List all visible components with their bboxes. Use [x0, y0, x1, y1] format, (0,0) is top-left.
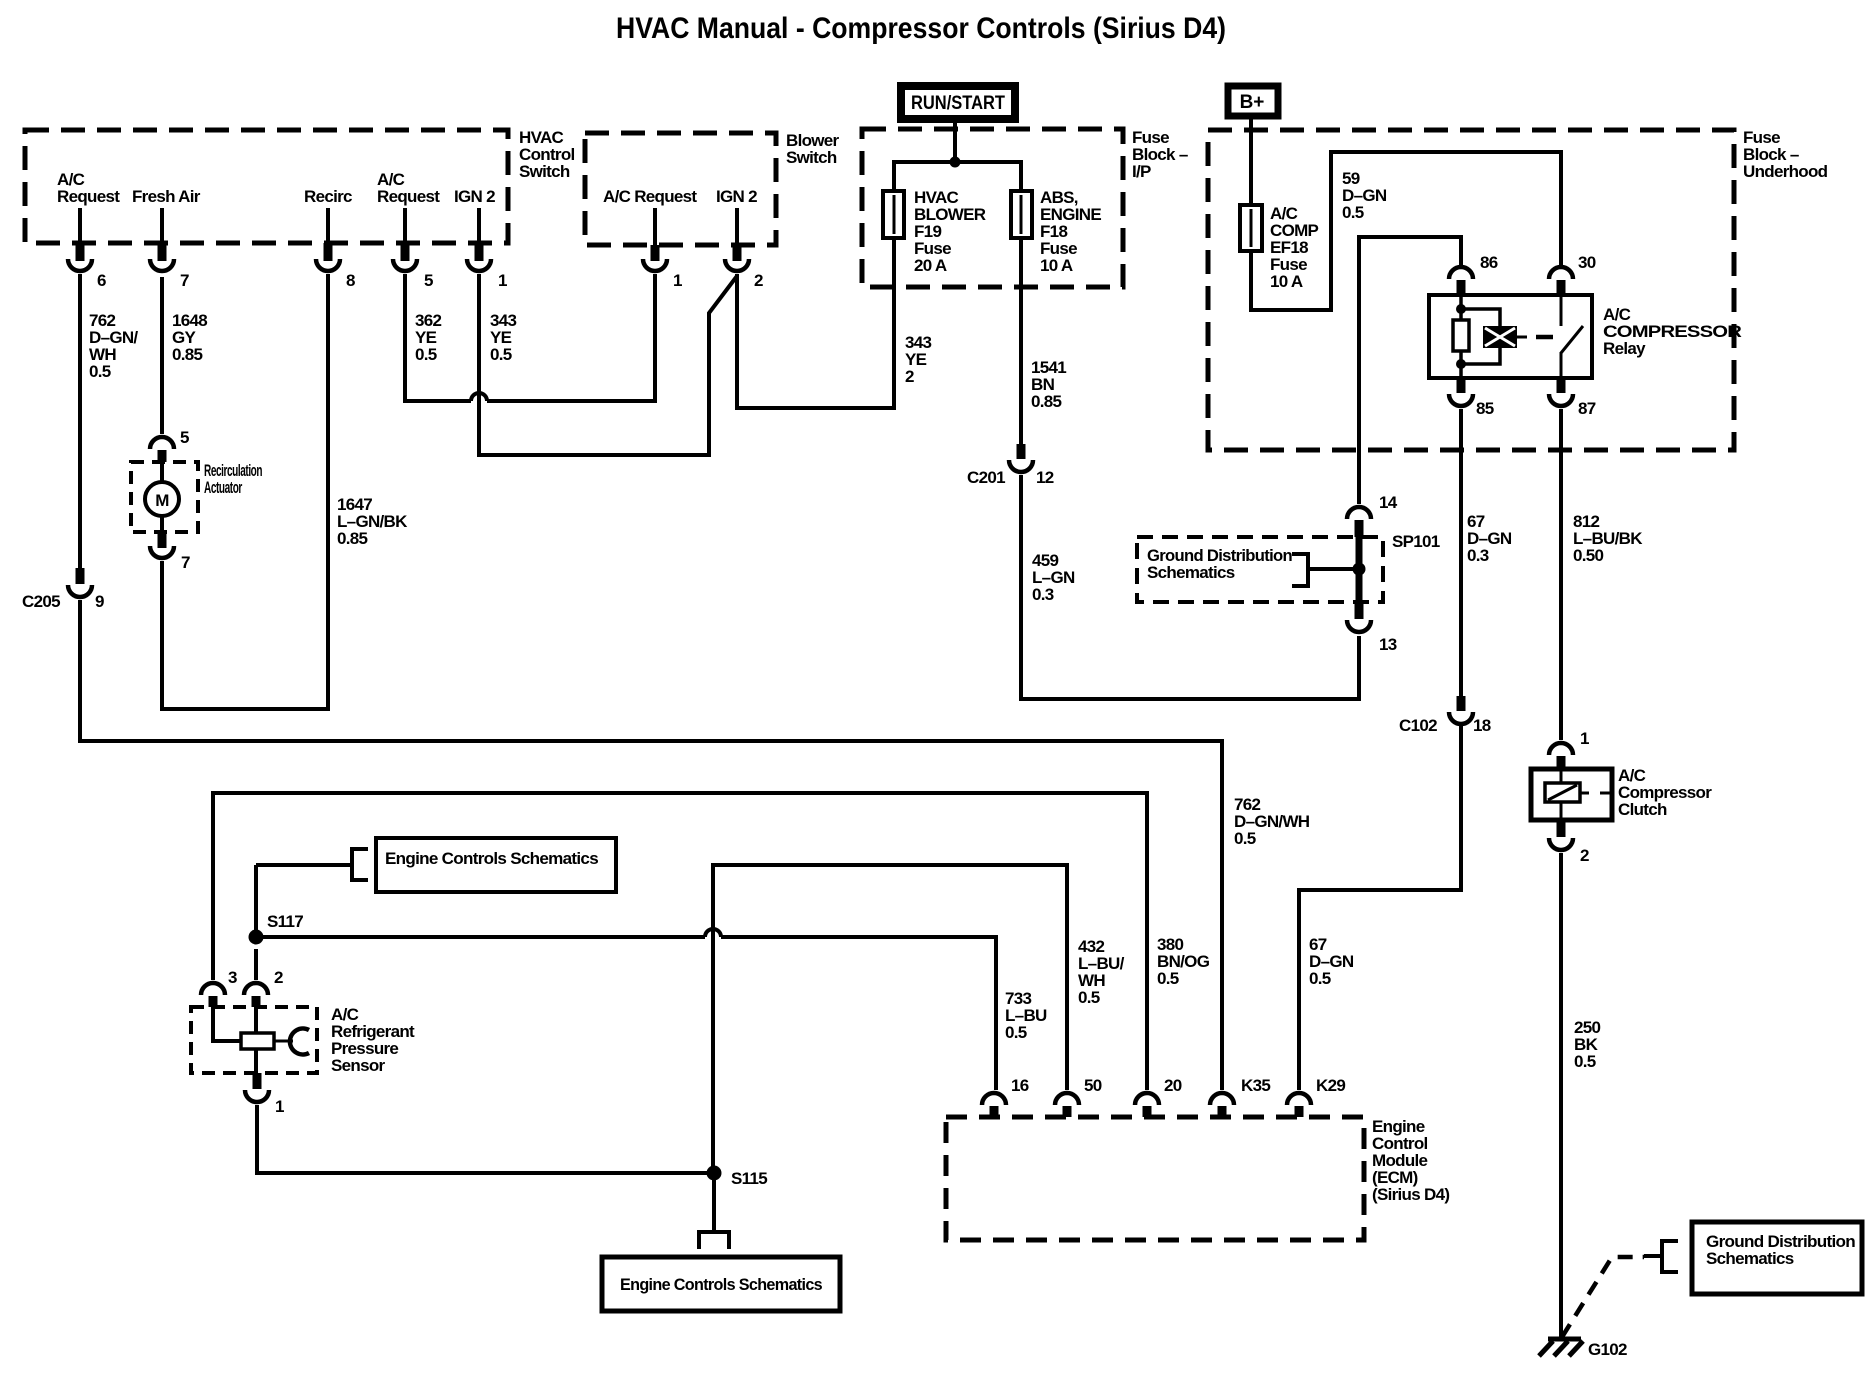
B+ feed box [1228, 86, 1278, 116]
svg-text:8: 8 [346, 271, 355, 290]
relay pin 86 connector [1449, 267, 1473, 279]
A/C COMPRESSOR Relay box U1 [1429, 295, 1592, 378]
half connector bracket (lower) [699, 1232, 729, 1249]
pin 5 connector [403, 208, 407, 247]
Engine Controls Schematics box (lower) [602, 1257, 840, 1311]
Ground Distribution Schematics SP101 box [1137, 537, 1383, 602]
svg-text:2: 2 [274, 968, 283, 987]
relay pin 87 connector [1557, 378, 1566, 393]
svg-text:M: M [155, 491, 169, 510]
wire 380 BN/OG: ECM pin 20 up, left, down to sensor pin 3 [213, 793, 1147, 1090]
svg-text:7: 7 [181, 553, 190, 572]
svg-text:20: 20 [1164, 1076, 1182, 1095]
svg-text:S115: S115 [731, 1169, 767, 1188]
svg-text:B+: B+ [1240, 92, 1265, 113]
ECM pin 20 connector [1135, 1093, 1159, 1105]
svg-text:5: 5 [424, 271, 433, 290]
svg-text:Recirc: Recirc [304, 187, 352, 206]
relay coil feed wire [1461, 295, 1500, 378]
svg-text:18: 18 [1473, 716, 1491, 735]
relay pin 30 connector [1549, 267, 1573, 279]
relay resistor [1453, 320, 1469, 351]
wire fresh air: pin 7 down to actuator pin 5 [160, 277, 164, 434]
svg-text:Engine Controls Schematics: Engine Controls Schematics [385, 849, 598, 868]
svg-text:9: 9 [95, 592, 104, 611]
svg-text:K29: K29 [1316, 1076, 1345, 1095]
sensor transducer lead [274, 1040, 293, 1043]
wire sensor pin1 to S115 [257, 1105, 714, 1173]
wire 67 D-GN 0.5: C102 down, left, down to ECM K29 [1299, 726, 1461, 1090]
wire B+ stem to fuse EF18 [1249, 119, 1253, 205]
svg-text:IGN 2: IGN 2 [716, 187, 757, 206]
relay coil [1483, 326, 1517, 348]
half connector bracket to splice [1292, 554, 1353, 586]
clutch pin 2 connector [1557, 820, 1566, 837]
wire hop at x=479 [471, 393, 487, 401]
splice SP101 line [1356, 537, 1363, 602]
half connector bracket [1644, 1241, 1678, 1272]
Engine Controls Schematics box (upper) [376, 838, 616, 892]
Engine Control Module ECM box [946, 1117, 1364, 1240]
svg-text:HVAC Manual - Compressor Contr: HVAC Manual - Compressor Controls (Siriu… [616, 12, 1226, 45]
actuator pin 5 connector [150, 437, 174, 449]
svg-text:BlowerSwitch: BlowerSwitch [786, 131, 840, 167]
wire 343 YE 2: blower pin 2 down and right to fuse F19 [737, 238, 894, 408]
sensor pin 2 connector [254, 949, 258, 980]
connector C205 [76, 568, 85, 584]
svg-text:85: 85 [1476, 399, 1494, 418]
svg-text:86: 86 [1480, 253, 1498, 272]
wire 762 D-GN/WH: C205 down, across to ECM K35 [80, 600, 1222, 1090]
Recirculation Actuator box [131, 462, 198, 532]
splice S117 [249, 930, 264, 945]
svg-text:1: 1 [673, 271, 682, 290]
wire 733 L-BU: S117 right (hop at 713) to ECM pin 16 [256, 935, 705, 939]
ground G102 [1548, 1337, 1581, 1342]
svg-text:Engine Controls Schematics: Engine Controls Schematics [620, 1275, 822, 1294]
relay actuating dashed link [1536, 335, 1553, 340]
pin 7 connector [160, 208, 164, 247]
svg-text:6: 6 [97, 271, 106, 290]
wire relay 85 down to C102 [1459, 409, 1463, 696]
pin 8 connector [326, 208, 330, 247]
clutch pin 1 connector [1549, 743, 1573, 755]
fuse F19 HVAC BLOWER 20A [893, 191, 896, 238]
svg-text:IGN 2: IGN 2 [454, 187, 495, 206]
blower pin 1 connector [653, 208, 657, 249]
svg-text:G102: G102 [1588, 1340, 1627, 1359]
dashed wire from ground to schematics bracket [1562, 1257, 1644, 1337]
svg-text:13: 13 [1379, 635, 1397, 654]
splice S115 [707, 1166, 722, 1181]
svg-text:SP101: SP101 [1392, 532, 1440, 551]
wire 67 D-GN: relay pin 86 left and down to SP101 pin 14 [1359, 237, 1461, 504]
svg-text:1: 1 [498, 271, 507, 290]
relay switch contact [1560, 295, 1563, 326]
sensor resistor element [241, 1033, 274, 1049]
pin 1 connector [477, 208, 481, 247]
actuator pin 7 connector [158, 532, 167, 548]
svg-text:C102: C102 [1399, 716, 1437, 735]
svg-text:Schematics: Schematics [1706, 1249, 1794, 1268]
svg-text:2: 2 [1580, 846, 1589, 865]
SP101 pin 13 connector [1355, 602, 1364, 619]
svg-text:5: 5 [180, 428, 189, 447]
ECM pin K29 connector [1287, 1093, 1311, 1105]
connector C201 [1017, 444, 1026, 459]
svg-text:1: 1 [1580, 729, 1589, 748]
half connector bracket (upper box) [256, 849, 368, 880]
A/C Compressor Clutch box [1531, 769, 1612, 820]
svg-text:2: 2 [754, 271, 763, 290]
fuse EF18 A/C COMP 10A [1240, 205, 1262, 251]
wire 343 YE: HVAC pin1 IGN2 down, right, up-diagonal to blower pin 2 [479, 274, 737, 455]
svg-text:30: 30 [1578, 253, 1596, 272]
SP101 pin 14 connector [1347, 507, 1371, 519]
wire 250 BK: clutch to ground G102 [1559, 853, 1563, 1339]
svg-text:12: 12 [1036, 468, 1054, 487]
HVAC Control Switch box [25, 130, 508, 243]
wire S115 down to schematics bracket [712, 1173, 716, 1232]
RUN/START feed box [901, 86, 1015, 119]
svg-text:7: 7 [180, 271, 189, 290]
svg-text:Schematics: Schematics [1147, 563, 1235, 582]
svg-text:50: 50 [1084, 1076, 1102, 1095]
svg-text:K35: K35 [1241, 1076, 1270, 1095]
clutch coil symbol [1560, 769, 1563, 820]
ECM pin 50 connector [1055, 1093, 1079, 1105]
svg-text:1: 1 [275, 1097, 284, 1116]
wire 1647 L-GN/BK: actuator pin7 to Recirc pin 8 [162, 274, 328, 709]
wire relay 87 down to clutch pin 1 [1559, 409, 1563, 740]
motor M [160, 462, 164, 532]
fuse F18 ABS ENGINE 10A [1011, 191, 1032, 238]
svg-text:14: 14 [1379, 493, 1398, 512]
Fuse Block - I/P box [862, 129, 1123, 287]
svg-text:S117: S117 [267, 912, 303, 931]
sensor pin 1 connector [253, 1073, 262, 1089]
wire RUN/START stem [953, 120, 957, 166]
svg-text:Fresh Air: Fresh Air [132, 187, 201, 206]
relay pin 85 connector [1457, 378, 1466, 393]
Fuse Block - Underhood box [1208, 130, 1734, 450]
wire 459 L-GN: C201 down, right, up to SP101 pin 13 [1021, 475, 1359, 699]
svg-text:A/C Request: A/C Request [603, 187, 697, 206]
svg-text:RUN/START: RUN/START [911, 93, 1005, 114]
blower pin 2 connector [735, 208, 739, 249]
svg-text:C201: C201 [967, 468, 1005, 487]
junction dot [950, 157, 961, 168]
ECM pin K35 connector [1210, 1093, 1234, 1105]
wire fuse feed bus [894, 162, 1021, 191]
wire 1541 BN: fuse F18 down to C201 [1019, 238, 1023, 448]
ECM pin 16 connector [982, 1093, 1006, 1105]
sensor transducer crescent [290, 1028, 309, 1054]
Ground Distribution Schematics box (bottom right) [1692, 1222, 1862, 1294]
wire hop at x=713 [705, 929, 721, 937]
wire bracket down to S117 [254, 865, 258, 937]
wire 59 D-GN: EF18 to relay pin 30 [1251, 152, 1561, 310]
splice dot SP101 [1353, 563, 1366, 576]
svg-text:16: 16 [1011, 1076, 1029, 1095]
pin 6 connector [78, 208, 82, 247]
svg-text:3: 3 [228, 968, 237, 987]
svg-text:C205: C205 [22, 592, 60, 611]
svg-text:87: 87 [1578, 399, 1596, 418]
relay junction dots [1456, 304, 1466, 314]
wire 432 L-BU/WH: ECM pin 50 up, left, down to S115 [713, 865, 1067, 1173]
sensor internal leads [213, 1007, 256, 1073]
Blower Switch box [585, 133, 776, 245]
sensor pin 3 connector [201, 983, 225, 995]
wire 762 D-GN/WH: pin 6 down to C205 [78, 274, 82, 568]
connector C102 [1457, 696, 1466, 711]
wire 362 YE: HVAC pin5 to blower pin 1 (hop over IGN2) [405, 274, 471, 401]
A/C Refrigerant Pressure Sensor box [191, 1007, 317, 1073]
